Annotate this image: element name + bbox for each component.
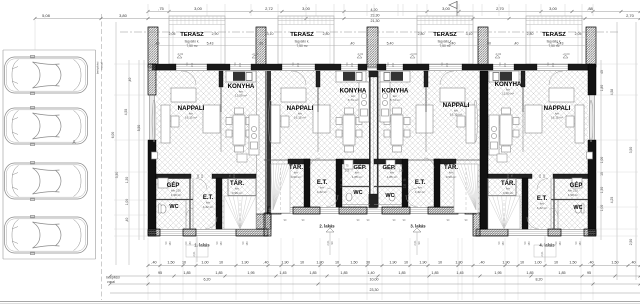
unit1 wardrobe <box>237 154 247 162</box>
svg-text:1,85 m²: 1,85 m² <box>352 175 363 179</box>
unit1 toilet <box>160 205 166 213</box>
svg-text:1,85: 1,85 <box>309 271 316 275</box>
recess mini dimension chains <box>326 228 334 232</box>
unit2 stairs <box>271 164 290 213</box>
svg-text:1,50: 1,50 <box>350 261 357 265</box>
unit4 stairs <box>488 196 520 229</box>
svg-text:3,00: 3,00 <box>194 6 203 11</box>
unit1 radiator <box>152 152 158 159</box>
right dimension lines <box>600 60 602 240</box>
svg-text:2,05: 2,05 <box>169 32 176 36</box>
svg-text:kér: kér <box>390 171 394 175</box>
svg-text:,40: ,40 <box>514 42 519 46</box>
svg-text:kér: kér <box>320 186 324 190</box>
bottom dimension row 3 <box>110 283 640 285</box>
svg-text:4,32 m²: 4,32 m² <box>537 206 548 210</box>
svg-text:3,10: 3,10 <box>267 32 274 36</box>
svg-text:100: 100 <box>197 173 200 178</box>
svg-text:5,40: 5,40 <box>449 42 456 46</box>
svg-text:3,10: 3,10 <box>466 32 473 36</box>
svg-text:,40: ,40 <box>630 261 635 265</box>
unit3 door arcs <box>424 158 434 168</box>
svg-text:-0,02: -0,02 <box>495 52 502 56</box>
svg-text:16,15 m²: 16,15 m² <box>450 113 462 117</box>
svg-text:1,85: 1,85 <box>340 271 347 275</box>
entry walk dim chain unit1 <box>186 245 208 257</box>
unit3 living/kitchen furniture <box>380 71 477 152</box>
svg-text:8,74 m²: 8,74 m² <box>348 98 359 102</box>
terrace slab unit 2 <box>278 16 334 64</box>
svg-text:1,80: 1,80 <box>600 85 604 92</box>
svg-text:kér: kér <box>294 171 298 175</box>
svg-text:1,80: 1,80 <box>455 261 462 265</box>
svg-text:1,90: 1,90 <box>419 261 426 265</box>
svg-text:kér: kér <box>449 171 453 175</box>
svg-text:1,00: 1,00 <box>534 261 541 265</box>
svg-text:210: 210 <box>341 183 344 188</box>
svg-text:0,99 m²: 0,99 m² <box>446 175 457 179</box>
svg-text:kér: kér <box>355 171 359 175</box>
party wall unit3/4 <box>480 71 488 229</box>
unit1 washer <box>158 178 168 188</box>
svg-text:0,99 m²: 0,99 m² <box>503 191 514 195</box>
svg-text:95: 95 <box>158 271 162 275</box>
unit3 toilet <box>389 193 395 201</box>
svg-text:180: 180 <box>219 241 223 246</box>
svg-text:1,98 m²: 1,98 m² <box>568 193 579 197</box>
unit4 toilet <box>575 205 581 213</box>
svg-text:30: 30 <box>366 261 370 265</box>
terrace slab unit 3 <box>417 16 473 64</box>
svg-text:3,00: 3,00 <box>549 6 558 11</box>
svg-text:10: 10 <box>600 172 604 176</box>
svg-text:5,40: 5,40 <box>387 42 394 46</box>
svg-text:180: 180 <box>501 241 505 246</box>
unit1 back rooms walls <box>156 174 191 179</box>
svg-text:100: 100 <box>543 173 546 178</box>
svg-text:10: 10 <box>219 261 223 265</box>
svg-text:2,72: 2,72 <box>265 6 274 11</box>
entry door arcs <box>205 217 217 229</box>
car 4 (parking) <box>5 215 88 254</box>
terrace slab unit 1 <box>169 16 225 64</box>
top dimension line row 2 <box>35 18 640 20</box>
svg-text:11,50 m²: 11,50 m² <box>502 92 514 96</box>
svg-text:1,90: 1,90 <box>281 261 288 265</box>
svg-text:TERASZ: TERASZ <box>180 32 204 38</box>
svg-text:2,90: 2,90 <box>212 32 219 36</box>
svg-text:0,99 m²: 0,99 m² <box>291 175 302 179</box>
svg-text:1,50: 1,50 <box>611 261 618 265</box>
svg-text:fagyálló k.: fagyálló k. <box>295 40 310 44</box>
svg-text:1,80: 1,80 <box>316 261 323 265</box>
svg-text:WC: WC <box>169 204 178 210</box>
svg-text:10: 10 <box>438 261 442 265</box>
svg-text:kér 210: kér 210 <box>171 189 181 193</box>
svg-text:2,01: 2,01 <box>192 251 196 257</box>
building line (beepitesi vonal) dashed <box>101 14 103 300</box>
step wall right <box>473 213 480 236</box>
svg-text:4,55: 4,55 <box>124 109 128 116</box>
step wall left <box>264 213 271 236</box>
bottom extension lines <box>147 238 149 300</box>
svg-text:30: 30 <box>487 42 491 46</box>
svg-text:23,30: 23,30 <box>371 14 380 18</box>
unit4 radiator <box>587 152 593 159</box>
svg-text:,75: ,75 <box>158 6 164 11</box>
svg-text:2,01: 2,01 <box>540 251 544 257</box>
svg-text:,40: ,40 <box>588 261 593 265</box>
svg-text:8,74 m²: 8,74 m² <box>390 98 401 102</box>
svg-text:21,30: 21,30 <box>371 19 380 23</box>
svg-text:10: 10 <box>520 261 524 265</box>
svg-text:+0,00: +0,00 <box>409 52 417 56</box>
svg-text:TERASZ: TERASZ <box>290 32 314 38</box>
svg-text:16,15 m²: 16,15 m² <box>294 116 306 120</box>
svg-text:210: 210 <box>296 62 300 67</box>
svg-text:1,50: 1,50 <box>569 261 576 265</box>
bottom dimension row 4 <box>110 292 640 294</box>
svg-text:WC: WC <box>385 193 394 199</box>
svg-text:1,50: 1,50 <box>167 261 174 265</box>
right exterior wall <box>588 64 596 95</box>
svg-text:beépítési: beépítési <box>106 276 120 280</box>
svg-text:5,43: 5,43 <box>557 42 564 46</box>
unit3 washer <box>386 160 395 169</box>
svg-text:215: 215 <box>345 169 350 173</box>
top extension lines <box>147 4 149 16</box>
unit3 back rooms walls <box>378 159 480 161</box>
svg-text:2,80: 2,80 <box>323 32 330 36</box>
svg-text:210: 210 <box>391 62 395 67</box>
unit4 door arcs <box>537 179 548 190</box>
unit2 toilet <box>346 193 352 201</box>
svg-text:23,30: 23,30 <box>370 288 379 292</box>
svg-text:7,50 m²: 7,50 m² <box>186 44 198 48</box>
svg-text:4,32 m²: 4,32 m² <box>415 190 426 194</box>
unit1 living/kitchen furniture <box>152 71 259 155</box>
svg-text:180: 180 <box>527 241 531 246</box>
svg-text:2,05: 2,05 <box>575 32 582 36</box>
unit2 back rooms walls <box>264 159 370 161</box>
svg-text:1,90: 1,90 <box>241 261 248 265</box>
unit2 washer <box>344 160 353 169</box>
svg-text:40: 40 <box>600 70 604 74</box>
car 1 (parking) <box>5 55 88 94</box>
svg-text:+0,00: +0,00 <box>562 52 570 56</box>
entry walk dim chain unit4 <box>534 245 556 257</box>
bottom recessed wall units2/3 <box>268 207 476 209</box>
svg-text:kér: kér <box>206 201 210 205</box>
svg-text:vonal: vonal <box>100 62 104 70</box>
svg-text:2,70: 2,70 <box>496 6 505 11</box>
svg-text:TERASZ: TERASZ <box>433 32 457 38</box>
svg-text:4,25: 4,25 <box>610 197 614 204</box>
left horizontal ticks <box>114 63 148 65</box>
svg-text:4,58: 4,58 <box>610 89 614 96</box>
svg-text:180: 180 <box>168 241 172 246</box>
svg-text:210: 210 <box>350 62 354 67</box>
bottom dimension row 1 <box>148 265 640 267</box>
svg-text:2,80: 2,80 <box>527 32 534 36</box>
bottom dimension row 2 <box>110 275 640 277</box>
svg-text:1,00: 1,00 <box>201 261 208 265</box>
svg-text:1,85: 1,85 <box>526 271 533 275</box>
svg-text:0,99 m²: 0,99 m² <box>232 191 243 195</box>
svg-text:1,90: 1,90 <box>389 261 396 265</box>
unit2 living/kitchen furniture <box>269 71 369 152</box>
svg-text:10: 10 <box>404 261 408 265</box>
unit1 door arcs <box>196 179 207 190</box>
svg-text:4,32 m²: 4,32 m² <box>203 205 214 209</box>
svg-text:6,00: 6,00 <box>111 132 115 139</box>
svg-text:1,00: 1,00 <box>600 205 604 212</box>
unit1 stairs <box>224 196 256 229</box>
terrace slab unit 4 <box>526 16 582 64</box>
svg-text:2. lakás: 2. lakás <box>319 224 335 229</box>
svg-text:215: 215 <box>399 169 404 173</box>
svg-text:kér: kér <box>506 187 510 191</box>
svg-text:16,15 m²: 16,15 m² <box>551 116 563 120</box>
svg-text:3,00: 3,00 <box>302 6 311 11</box>
nappali/konyha divider walls <box>219 71 223 87</box>
svg-text:1,95: 1,95 <box>494 271 501 275</box>
svg-text:6,20: 6,20 <box>204 278 211 282</box>
svg-text:5,50: 5,50 <box>137 125 141 132</box>
bottom boundary line <box>0 301 640 303</box>
svg-text:5,43: 5,43 <box>207 42 214 46</box>
svg-text:,40: ,40 <box>155 42 160 46</box>
svg-text:75: 75 <box>399 164 403 168</box>
svg-text:210: 210 <box>503 62 507 67</box>
svg-text:1,85: 1,85 <box>183 271 190 275</box>
svg-text:10: 10 <box>300 261 304 265</box>
svg-text:210: 210 <box>190 62 194 67</box>
unit4 wardrobe <box>497 154 507 162</box>
svg-text:210: 210 <box>201 173 204 178</box>
svg-text:2,01: 2,01 <box>413 240 417 246</box>
svg-text:90: 90 <box>330 241 334 244</box>
survey pennant marker <box>449 2 457 9</box>
car 2 (parking) <box>5 106 88 145</box>
bottom exterior wall unit4 <box>476 229 596 231</box>
svg-text:95: 95 <box>587 271 591 275</box>
svg-text:,40: ,40 <box>125 218 129 223</box>
svg-text:1,00: 1,00 <box>125 199 129 206</box>
svg-text:fagyálló k.: fagyálló k. <box>185 40 200 44</box>
svg-text:vonal: vonal <box>107 280 115 284</box>
svg-text:2,01: 2,01 <box>326 240 330 246</box>
svg-text:210: 210 <box>445 62 449 67</box>
svg-text:180: 180 <box>578 241 582 246</box>
svg-text:1,40: 1,40 <box>367 271 374 275</box>
bottom exterior wall unit1 <box>148 229 268 231</box>
party wall unit2/3 (expansion joint, double wall) <box>369 71 371 207</box>
svg-text:,40: ,40 <box>479 261 484 265</box>
svg-text:210: 210 <box>238 62 242 67</box>
svg-text:1,98 m²: 1,98 m² <box>171 193 182 197</box>
unit3 stairs <box>454 164 478 213</box>
svg-text:,40: ,40 <box>350 42 355 46</box>
svg-text:TERASZ: TERASZ <box>542 32 566 38</box>
svg-text:kér: kér <box>418 186 422 190</box>
svg-text:16,15 m²: 16,15 m² <box>185 116 197 120</box>
party wall unit1/2 (double wall with gap) <box>255 71 257 214</box>
svg-text:,40: ,40 <box>263 261 268 265</box>
section line A-A <box>120 31 620 33</box>
svg-text:210: 210 <box>233 173 236 178</box>
svg-text:-0,02: -0,02 <box>177 52 184 56</box>
svg-text:10: 10 <box>335 261 339 265</box>
unit4 back rooms walls <box>553 174 588 179</box>
svg-text:3,00: 3,00 <box>442 6 451 11</box>
svg-text:kér: kér <box>235 187 239 191</box>
svg-text:,40: ,40 <box>128 78 132 83</box>
terrace dim line <box>148 45 596 47</box>
svg-text:1,85: 1,85 <box>398 271 405 275</box>
svg-text:4,32 m²: 4,32 m² <box>317 190 328 194</box>
svg-text:10: 10 <box>182 261 186 265</box>
svg-text:30: 30 <box>259 42 263 46</box>
svg-text:1,95: 1,95 <box>247 271 254 275</box>
svg-text:1,85 m²: 1,85 m² <box>387 175 398 179</box>
unit4 tar box <box>488 179 516 196</box>
svg-text:1,45: 1,45 <box>456 271 463 275</box>
svg-text:-0,02: -0,02 <box>357 52 364 56</box>
svg-text:180: 180 <box>245 241 249 246</box>
svg-text:1,85: 1,85 <box>215 271 222 275</box>
left dimension lines <box>115 22 117 265</box>
svg-text:75: 75 <box>345 164 349 168</box>
svg-text:210: 210 <box>539 173 542 178</box>
svg-text:WC: WC <box>353 190 362 196</box>
svg-text:,88: ,88 <box>587 6 593 11</box>
svg-text:kér 210: kér 210 <box>568 189 578 193</box>
svg-text:7,50 m²: 7,50 m² <box>296 44 308 48</box>
svg-text:8,20: 8,20 <box>536 278 543 282</box>
unit4 washer <box>572 178 582 188</box>
svg-text:1,90: 1,90 <box>502 261 509 265</box>
svg-text:1,45: 1,45 <box>279 271 286 275</box>
svg-text:210: 210 <box>404 183 407 188</box>
left exterior wall <box>148 64 156 95</box>
top dimension line row 1 <box>148 11 640 13</box>
unit4 living/kitchen furniture <box>489 71 593 155</box>
svg-text:1,30: 1,30 <box>125 177 129 184</box>
svg-text:10: 10 <box>554 261 558 265</box>
svg-text:1,85: 1,85 <box>558 271 565 275</box>
car 3 (parking) <box>5 161 88 200</box>
svg-text:5,08: 5,08 <box>42 13 51 18</box>
svg-text:3,30: 3,30 <box>115 172 119 179</box>
svg-text:210: 210 <box>551 62 555 67</box>
top wall piers <box>152 64 176 70</box>
parking area outline <box>2 50 4 259</box>
svg-text:WC: WC <box>573 205 582 211</box>
svg-text:10,00: 10,00 <box>370 278 379 282</box>
svg-text:3,50: 3,50 <box>629 147 633 154</box>
svg-text:210: 210 <box>507 173 510 178</box>
svg-text:180: 180 <box>558 241 562 246</box>
svg-text:1,30: 1,30 <box>600 187 604 194</box>
svg-text:,40: ,40 <box>151 261 156 265</box>
unit2 door arcs <box>310 158 320 168</box>
svg-text:90: 90 <box>417 241 421 244</box>
svg-text:3,80: 3,80 <box>119 13 128 18</box>
svg-text:2,50: 2,50 <box>629 239 633 246</box>
svg-text:kér: kér <box>540 202 544 206</box>
svg-text:13,59 m²: 13,59 m² <box>235 94 247 98</box>
unit1 tar box <box>228 179 256 196</box>
svg-text:+0,00: +0,00 <box>251 52 259 56</box>
svg-text:1,00: 1,00 <box>600 157 604 164</box>
interior floor hatch <box>156 71 588 207</box>
terrace party-wall stubs <box>148 27 158 67</box>
top exterior wall with windows <box>148 64 596 66</box>
svg-text:2,70: 2,70 <box>626 13 635 18</box>
svg-text:2,80: 2,80 <box>418 32 425 36</box>
svg-text:1,85: 1,85 <box>431 271 438 275</box>
svg-text:3. lakás: 3. lakás <box>410 224 426 229</box>
